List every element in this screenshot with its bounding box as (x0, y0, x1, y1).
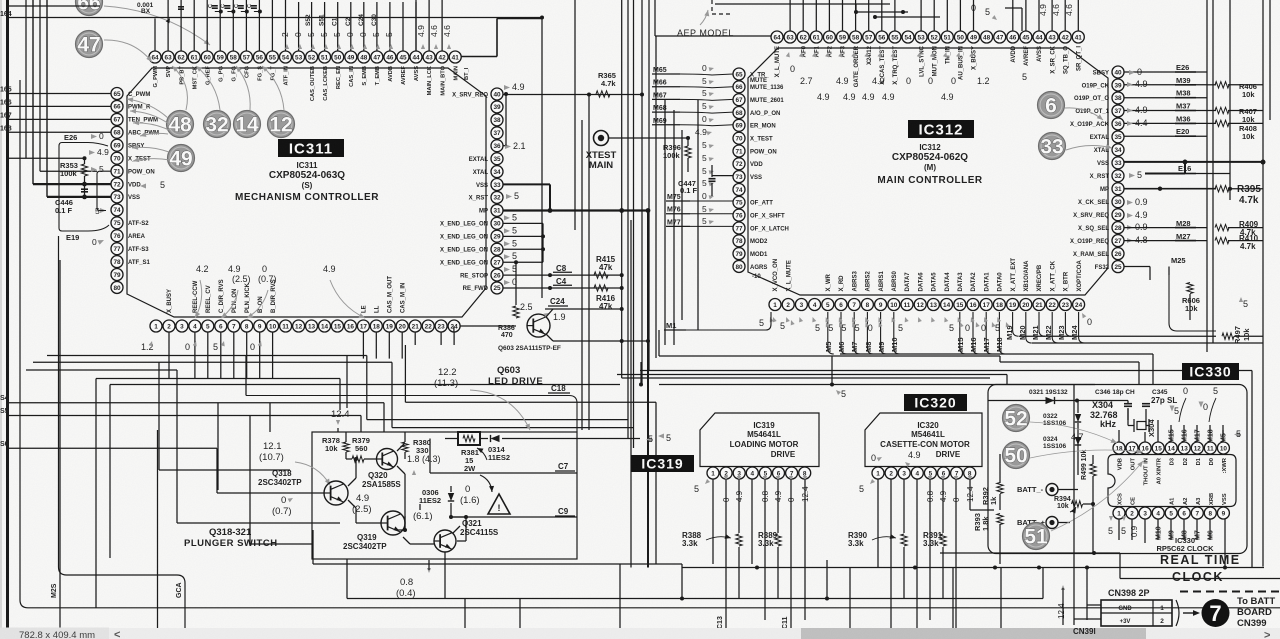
ref circle 66 (76, 0, 103, 16)
wire trunk y598 (347, 598, 1043, 600)
wire route B (33, 361, 392, 363)
brace and arrow to CN399 (1176, 600, 1179, 626)
wire vertical x177 (176, 370, 178, 523)
svg-text:>: > (1264, 630, 1270, 639)
resistor R408 10k (1215, 120, 1229, 126)
wire trunk y378 (96, 378, 340, 380)
pointer arrow 14a (236, 66, 250, 110)
IC319 body (700, 413, 819, 467)
wire pin73 (47, 196, 111, 198)
wires IC330 top pins up (1118, 430, 1120, 442)
ref circle 33b (1039, 133, 1066, 160)
wire mid trunk x649 (648, 0, 650, 371)
wire pin24 to R386 (453, 327, 455, 333)
transistor Q603 (527, 314, 550, 337)
resistor R395 4.7k (1215, 186, 1229, 192)
wire right trunk x1263 (1262, 0, 1264, 567)
wire mid trunk x656 (655, 36, 657, 358)
pointer arrow 6 (1065, 108, 1103, 120)
wire trunk y18 (9, 17, 542, 19)
warning triangle (488, 494, 510, 514)
wire vertical x250 (249, 416, 251, 545)
IC312 bottom pins 1-24 (769, 299, 781, 311)
pointer arrow 66 (104, 6, 210, 45)
wire pin31 MP 312 (1124, 188, 1216, 190)
svg-text:<: < (114, 629, 120, 639)
ref circle 49 (168, 145, 195, 172)
wire Q321 emitter to trunk (444, 559, 446, 599)
resistor R407 10k (1215, 107, 1229, 113)
wire pin25 RE_FWD C4 (503, 287, 610, 289)
wires IC312 top bus (655, 35, 771, 37)
value 5 pin74 (100, 208, 106, 213)
wire vertical x218b (217, 492, 324, 494)
ref circle 6 (1038, 92, 1065, 119)
op-amp IC311 body outline (127, 68, 486, 317)
wire mid trunk x575 (574, 0, 576, 230)
ref circle 52b (1003, 405, 1030, 432)
IC311 top pins 64-41 (149, 51, 161, 63)
ref circle 32 (204, 111, 231, 138)
IC330 label box (1182, 363, 1239, 380)
wire trunk y374 (617, 374, 1007, 376)
transistor Q318 (324, 481, 348, 505)
wire trunk y384b (110, 384, 620, 386)
value 4.9 pin70 (89, 150, 95, 155)
IC330 top pins 18-10 (1113, 442, 1125, 454)
wire x465 down (464, 599, 466, 639)
wire mid trunk x582 (581, 120, 583, 430)
scan noise overlay (0, 0, 1, 1)
ref circle 47 (76, 31, 103, 58)
IC320 label box (904, 394, 967, 411)
value 5 pin32 (506, 194, 512, 199)
wire right trunk x1207 (1206, 0, 1208, 352)
ref circle 51b (1023, 523, 1050, 550)
wires IC311 bottom pins (168, 332, 170, 379)
wire pin36 (503, 145, 506, 147)
IC311 right pins 40-25 (491, 88, 503, 100)
transistor Q320 (377, 449, 398, 470)
pointer arrow 49a (132, 147, 169, 152)
resistor R606 10k (1187, 283, 1193, 294)
value 5 pin71 (91, 167, 97, 172)
transistor Q321 (434, 530, 456, 552)
wire x520 down (519, 599, 521, 639)
resistor R381 boxed (458, 432, 480, 445)
wire IC311 top bus B (298, 2, 300, 51)
resistor R406 10k (1215, 82, 1229, 88)
arrow row below IC312 (771, 316, 777, 322)
wires IC330 bottom pins down (1118, 519, 1120, 540)
IC311 bottom pins 1-24 (150, 320, 162, 332)
wires IC320 pins down (877, 479, 879, 568)
IC319 label box (631, 455, 694, 472)
statusbar (0, 628, 1280, 639)
wire mid trunk x621 (621, 0, 623, 378)
wire box bottom313 (313, 563, 682, 565)
wire vertical x270b (269, 403, 271, 432)
IC312 right pins 40-25 (1112, 66, 1124, 78)
clock box lines (1119, 553, 1121, 579)
resistor R497 10k (1222, 333, 1234, 339)
IC319 pins 1-8 (707, 467, 719, 479)
capacitors C2xx row (219, 10, 223, 14)
pointer 51 (1051, 461, 1143, 531)
wire to CN398 (1073, 384, 1075, 625)
wire pin33 VSS (503, 183, 550, 185)
wire mid trunk x698 (697, 100, 699, 330)
wire M25 vertical (59, 260, 61, 639)
wire IC311 top bus C (415, 0, 417, 51)
diode D314 11ES2 (491, 435, 500, 442)
pointer 50 (1030, 450, 1143, 458)
wire left verticals (25, 0, 27, 158)
dashed line CN399 (1180, 591, 1280, 593)
wire vertical x218c (217, 403, 219, 490)
wires X_END_LEG_ON pins 30-27 (504, 215, 510, 220)
wires IC312 bottom pins (828, 312, 834, 354)
wire x953 down (952, 568, 954, 639)
wire mid trunk x642 (641, 0, 643, 385)
wire trunk y567 (682, 567, 1264, 569)
ref circle 14 (234, 111, 261, 138)
IC312 top pins 64-41 (771, 31, 783, 43)
wire trunk y378b (622, 377, 990, 379)
transistor Q319 (381, 511, 405, 535)
wire x620 down (619, 564, 621, 639)
IC311 left pins 65-80 (111, 88, 123, 100)
wire right trunk x1230 (1229, 0, 1231, 200)
resistor R409 4.7k (1215, 224, 1229, 230)
pointer arrow 47 (104, 40, 152, 62)
IC330 bottom pins 1-9 (1113, 507, 1125, 519)
pointer arrow 12a (262, 66, 284, 110)
IC320 body (865, 413, 982, 467)
wire pin72 5 (33, 183, 111, 185)
connector ref 7 (1202, 599, 1230, 627)
sheet left border (6, 0, 9, 630)
ref circle 12 (268, 111, 295, 138)
plunger switch box (312, 432, 577, 559)
wire pin26 RE_STOP C8 (503, 274, 610, 276)
value 5 pin26 (504, 267, 510, 272)
IC320 pins 1-8 (872, 467, 884, 479)
value 0 pin69 (91, 134, 97, 139)
values IC312 right col (1129, 70, 1135, 75)
svg-text:CN39l: CN39l (1073, 627, 1096, 636)
wire right trunk x1270 (1269, 0, 1271, 120)
wire mid trunk x631 (630, 220, 632, 568)
ref circle 50b (1003, 442, 1030, 469)
wire pin27 down (514, 260, 518, 264)
pointer arrow 32a (196, 66, 220, 110)
wire x1001 down (1000, 568, 1002, 639)
wire mid trunk x589 (588, 95, 590, 431)
wire trunk y553 (940, 552, 1120, 554)
wire mid trunk x682 (681, 130, 683, 320)
wires IC319 pins down (712, 479, 714, 564)
wire pin70 4.9 (9, 157, 26, 159)
wire IC311 top bus A (154, 18, 156, 51)
IC311 label box (278, 139, 344, 157)
value 0 pin25 (504, 280, 510, 285)
wire pin40 X_SRV_REQ (503, 94, 642, 96)
wire pin31 MP heavy (503, 209, 648, 211)
pointer arrows to bottom pins (195, 280, 202, 318)
pointer arrow 33 (1066, 145, 1112, 150)
wire route C (404, 345, 406, 402)
IC312 left pins 65-80 (733, 68, 745, 80)
pointer arrow 48b (127, 99, 168, 118)
wire route A (47, 355, 367, 357)
RTC outer box (988, 385, 1247, 554)
resistor R410 4.7k (1215, 237, 1229, 243)
svg-text:782.8 x 409.4 mm: 782.8 x 409.4 mm (19, 630, 95, 639)
wire vertical x159 (158, 362, 160, 470)
pointer 52 (1030, 422, 1117, 443)
wire right trunk x1213 (1212, 0, 1214, 343)
pointer arrow 48a (172, 66, 187, 110)
net XTEST MAIN (594, 131, 609, 146)
wire x1043 down (1042, 568, 1044, 599)
wire FS32/M25 area (1168, 267, 1170, 276)
wire pin33 VSS 312 (1124, 161, 1263, 163)
wire x850 down (849, 568, 851, 639)
wire trunk y6 (9, 5, 100, 7)
ref circle 48 (167, 111, 194, 138)
wire mid trunk x674 (673, 110, 675, 345)
wire right trunk x1252 (1251, 371, 1253, 568)
wire mid trunk x665 (664, 100, 666, 345)
resistor R386 470 (513, 306, 519, 318)
wire rounded corner B (59, 236, 186, 639)
op-amp IC312 body outline (748, 48, 1108, 295)
wire vertical x157 (157, 430, 159, 639)
IC312 label box (908, 120, 974, 138)
IC330 body (1108, 455, 1236, 507)
plunger wires (345, 432, 347, 442)
